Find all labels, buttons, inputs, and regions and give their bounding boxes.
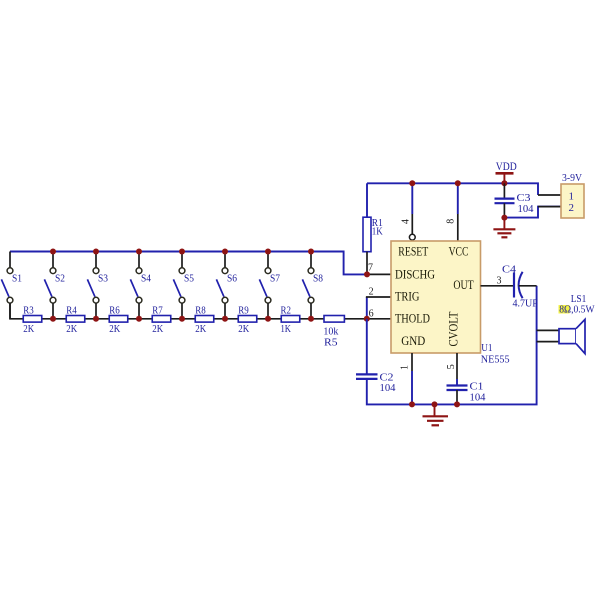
pin 3 OUT pin line <box>481 285 515 287</box>
capacitor C1 104 <box>447 384 468 386</box>
svg-text:THOLD: THOLD <box>395 311 430 326</box>
wire: connector pin1 stub <box>538 194 561 196</box>
pin 8 pin line <box>457 214 459 241</box>
power symbol VDD <box>503 173 505 183</box>
svg-text:1: 1 <box>400 365 411 370</box>
resistor R2 1K <box>281 316 300 323</box>
junction dot S7 bottom <box>265 316 271 322</box>
svg-text:104: 104 <box>380 382 396 394</box>
junction dot C3 bottom <box>501 215 507 221</box>
svg-text:S4: S4 <box>141 273 151 285</box>
pin 8 wire from rail <box>457 183 459 214</box>
svg-text:1K: 1K <box>281 323 292 335</box>
switch S7 <box>259 252 271 319</box>
svg-text:S5: S5 <box>184 273 194 285</box>
junction dot S5 top <box>179 249 185 255</box>
svg-text:3-9V: 3-9V <box>562 172 582 184</box>
svg-text:CVOLT: CVOLT <box>446 311 461 346</box>
junction dot C1/rail <box>454 401 460 407</box>
switch S4 <box>130 252 142 319</box>
junction dot S6 top <box>222 249 228 255</box>
svg-text:7: 7 <box>368 262 373 273</box>
resistor R1 1K (vertical) <box>366 183 368 217</box>
resistor R3 2K <box>23 316 42 323</box>
svg-text:R6: R6 <box>109 304 120 316</box>
svg-text:2K: 2K <box>23 323 34 335</box>
op-amp U1 NE555 chip body <box>391 241 481 353</box>
svg-text:NE555: NE555 <box>481 353 510 365</box>
switch S6 <box>216 252 228 319</box>
junction dot pin8/rail <box>455 180 461 186</box>
svg-text:S2: S2 <box>55 273 65 285</box>
wire: THOLD node up to TRIG corner <box>366 297 368 319</box>
junction dot S8 bottom <box>308 316 314 322</box>
switch S5 <box>173 252 185 319</box>
pin 5 CVOLT pin line <box>456 353 458 379</box>
connector 3-9V <box>561 184 584 218</box>
pin 2 TRIG pin line <box>366 296 391 298</box>
svg-text:S6: S6 <box>227 273 237 285</box>
junction dot S3 bottom <box>93 316 99 322</box>
svg-text:S7: S7 <box>270 273 280 285</box>
pin 4 wire from rail <box>411 183 413 214</box>
svg-text:VDD: VDD <box>496 159 517 173</box>
svg-text:4: 4 <box>401 219 412 224</box>
junction dot S5 bottom <box>179 316 185 322</box>
resistor R9 2K <box>238 316 257 323</box>
svg-text:R8: R8 <box>195 304 206 316</box>
resistor R5 10k <box>324 316 344 323</box>
pin 1 GND pin line <box>411 353 413 371</box>
junction dot S6 bottom <box>222 316 228 322</box>
junction dot pin7/R1 <box>364 271 370 277</box>
resistor R6 2K <box>109 316 128 323</box>
junction dot S4 bottom <box>136 316 142 322</box>
ground symbol (under C3) <box>503 218 505 229</box>
junction dot pin1/rail <box>409 401 415 407</box>
svg-text:S1: S1 <box>12 273 22 285</box>
svg-text:R9: R9 <box>238 304 249 316</box>
svg-text:1: 1 <box>569 191 575 203</box>
svg-text:R5: R5 <box>324 337 338 349</box>
svg-text:R2: R2 <box>281 304 292 316</box>
switch S8 <box>302 252 314 319</box>
svg-text:S3: S3 <box>98 273 108 285</box>
svg-text:104: 104 <box>470 391 486 403</box>
svg-text:4.7UF: 4.7UF <box>513 297 538 309</box>
svg-text:8Ω,0.5W: 8Ω,0.5W <box>559 303 595 315</box>
svg-text:2K: 2K <box>238 323 249 335</box>
resistor R8 2K <box>195 316 214 323</box>
svg-text:OUT: OUT <box>453 277 473 292</box>
resistor R4 2K <box>66 316 85 323</box>
junction dot VDD/rail <box>501 180 507 186</box>
svg-text:R4: R4 <box>66 304 77 316</box>
svg-text:RESET: RESET <box>398 244 428 259</box>
junction dot S4 top <box>136 249 142 255</box>
wire: C3 bottom to connector pin2 <box>504 207 561 218</box>
svg-text:3: 3 <box>497 276 502 287</box>
junction dot S2 top <box>50 249 56 255</box>
junction dot S8 top <box>308 249 314 255</box>
junction dot S3 top <box>93 249 99 255</box>
pin 7 DISCHG pin line <box>367 273 391 275</box>
wire: bottom resistor bus (S1 bottom to THOLD pin) <box>10 303 391 319</box>
svg-text:R3: R3 <box>23 304 34 316</box>
svg-text:1K: 1K <box>372 226 383 238</box>
svg-text:5: 5 <box>446 364 457 369</box>
svg-text:DISCHG: DISCHG <box>395 266 435 281</box>
junction dot pin4/rail <box>409 180 415 186</box>
wire: THOLD node down to C2 <box>366 319 368 375</box>
junction dot ground/rail <box>432 401 438 407</box>
svg-text:VCC: VCC <box>449 244 469 259</box>
svg-text:2K: 2K <box>152 323 163 335</box>
svg-text:C4: C4 <box>502 263 517 275</box>
capacitor C2 104 <box>356 373 378 375</box>
svg-text:S8: S8 <box>313 273 323 285</box>
resistor R7 2K <box>152 316 171 323</box>
speaker LS1 <box>537 329 559 331</box>
svg-text:2K: 2K <box>109 323 120 335</box>
wire: top switch bus from S1 to DISCHG corner <box>10 252 367 275</box>
svg-text:2K: 2K <box>66 323 77 335</box>
svg-text:GND: GND <box>401 333 425 348</box>
junction dot S7 top <box>265 249 271 255</box>
junction dot S2 bottom <box>50 316 56 322</box>
svg-text:R7: R7 <box>152 304 163 316</box>
switch S1 <box>1 252 13 319</box>
svg-text:2: 2 <box>569 202 575 214</box>
switch S3 <box>87 252 99 319</box>
svg-text:U1: U1 <box>481 342 492 354</box>
svg-text:8: 8 <box>446 219 457 224</box>
svg-text:2: 2 <box>369 287 374 298</box>
junction dot THOLD node <box>364 316 370 322</box>
wire: VDD top rail <box>367 183 538 195</box>
svg-text:104: 104 <box>518 203 534 215</box>
svg-text:2K: 2K <box>195 323 206 335</box>
capacitor C3 104 <box>503 183 505 198</box>
svg-text:TRIG: TRIG <box>395 289 420 304</box>
pin 4 pin line and inversion bubble <box>411 214 413 234</box>
ground symbol (main rail) <box>434 404 436 415</box>
wire: C2 to bottom ground rail and rail to speaker riser <box>367 286 537 405</box>
capacitor C4 4.7UF (polarized) <box>513 273 515 298</box>
switch S2 <box>44 252 56 319</box>
